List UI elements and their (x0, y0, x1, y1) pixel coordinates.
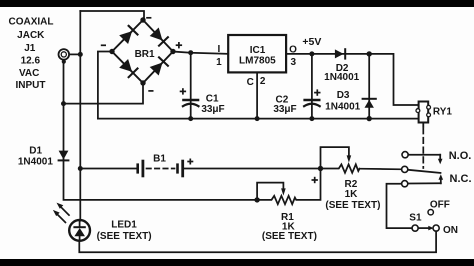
wire: BR1 right vertex to IC1 input (173, 52, 228, 54)
B1 sign plus (187, 161, 193, 163)
node jack tip junction (78, 52, 83, 57)
op-amp/regulator IC1 box (228, 35, 286, 72)
svg-text:JACK: JACK (17, 30, 45, 41)
BR1 sign minus left (101, 44, 106, 46)
node D3 ground (367, 116, 372, 121)
svg-text:C1: C1 (206, 93, 219, 104)
BR1 diode bottom-left (119, 59, 137, 77)
svg-text:N.O.: N.O. (449, 150, 472, 162)
wire: S1 ON to bottom return rail to LED1 cathode (79, 231, 436, 252)
svg-text:3: 3 (291, 57, 297, 68)
ground rail (98, 118, 419, 120)
wire: top rail to BR1 top vertex (80, 11, 144, 21)
wire: wiper feed from R2 (360, 168, 402, 171)
sign plus at R1/R2 junction (312, 179, 318, 181)
resistor R2 (rheostat) (321, 147, 360, 173)
node BR1 left (109, 49, 114, 54)
wire: jack sleeve down through D1 to R1 line (64, 62, 258, 200)
svg-text:O: O (289, 44, 297, 55)
svg-text:1N4001: 1N4001 (18, 157, 53, 168)
node BR1 bottom (140, 80, 145, 85)
diode D2 (335, 49, 345, 58)
svg-text:B1: B1 (153, 153, 166, 164)
svg-text:I: I (218, 44, 221, 55)
resistor R1 (rheostat) (257, 169, 320, 205)
wire: IC1 common to ground (256, 72, 258, 118)
svg-text:1: 1 (216, 57, 222, 68)
LED1 emission arrows (53, 203, 69, 223)
svg-text:12.6: 12.6 (21, 55, 41, 66)
svg-text:(SEE TEXT): (SEE TEXT) (262, 231, 317, 242)
svg-text:J1: J1 (24, 43, 36, 54)
switch S1 (412, 210, 439, 232)
node BR1 bottom AC tee (61, 101, 66, 106)
svg-text:VAC: VAC (19, 68, 39, 79)
wire: N.C. contact to S1 (387, 184, 412, 228)
svg-text:1N4001: 1N4001 (325, 102, 360, 113)
svg-text:OFF: OFF (430, 199, 450, 210)
svg-text:IC1: IC1 (250, 45, 266, 56)
svg-text:33μF: 33μF (273, 104, 296, 115)
letterbox bars (0, 0, 474, 7)
wire: jack tip vertical bus x=80.3 (top rail to LED1) (79, 11, 81, 221)
diode D1 (59, 151, 69, 161)
BR1 diode top-left (119, 26, 137, 44)
svg-text:(SEE TEXT): (SEE TEXT) (97, 231, 152, 242)
node R1/R2 junction (318, 166, 323, 171)
BR1 diode top-right (150, 28, 168, 46)
svg-text:C: C (247, 77, 254, 88)
BR1 sign minus top (146, 17, 151, 19)
LED1 (69, 220, 90, 241)
capacitor C2 (304, 54, 320, 119)
relay contact N.O. (402, 152, 443, 165)
relay actuator dashed linkage (422, 128, 424, 168)
svg-text:S1: S1 (409, 213, 422, 224)
relay RY1 coil (416, 102, 431, 127)
node IC1 common ground (255, 116, 260, 121)
BR1 sign minus bottom (148, 90, 153, 92)
wire: IC1 output +5V rail to relay (286, 54, 419, 105)
node BR1 top (140, 17, 145, 22)
node R1 left junction (254, 197, 259, 202)
node BR1 right (170, 49, 175, 54)
svg-text:LED1: LED1 (111, 219, 137, 230)
svg-text:D1: D1 (29, 146, 42, 157)
diode D3 (flyback, cathode up) (363, 54, 376, 119)
svg-text:LM7805: LM7805 (239, 55, 276, 66)
svg-text:RY1: RY1 (433, 107, 453, 118)
C1 sign plus (180, 90, 186, 92)
svg-text:+5V: +5V (302, 36, 321, 48)
node C1 top tee (188, 50, 193, 55)
wire: BR1 bottom vertex to sleeve bus (64, 83, 144, 104)
wire: BR1 left vertex to ground rail (98, 52, 112, 119)
bridge rectifier BR1 diamond (112, 20, 173, 83)
svg-text:ON: ON (443, 225, 458, 236)
capacitor C1 (183, 53, 199, 119)
coaxial jack J1 (59, 49, 79, 64)
polarity sign strokes (101, 18, 321, 183)
svg-text:COAXIAL: COAXIAL (9, 17, 54, 28)
C2 sign plus (314, 92, 320, 94)
relay wiper (common pole) (402, 166, 441, 173)
node D2-D3 junction (367, 51, 372, 56)
svg-text:D3: D3 (337, 90, 350, 101)
battery B1 (80, 161, 320, 176)
node C2 ground (309, 116, 314, 121)
svg-text:33μF: 33μF (201, 104, 224, 115)
BR1 diode bottom-right (150, 57, 168, 75)
svg-text:1K: 1K (345, 189, 359, 200)
BR1 sign plus right (176, 44, 182, 46)
svg-text:BR1: BR1 (135, 49, 155, 60)
svg-text:INPUT: INPUT (16, 80, 46, 91)
svg-text:1N4001: 1N4001 (324, 72, 359, 83)
node C1 ground (188, 116, 193, 121)
node B1 negative tee on LED bus (78, 166, 83, 171)
relay contact N.C. (402, 174, 444, 186)
svg-text:(SEE TEXT): (SEE TEXT) (325, 200, 380, 211)
svg-text:2: 2 (260, 76, 266, 87)
svg-text:N.C.: N.C. (450, 173, 472, 185)
node C2 top tee (309, 51, 314, 56)
